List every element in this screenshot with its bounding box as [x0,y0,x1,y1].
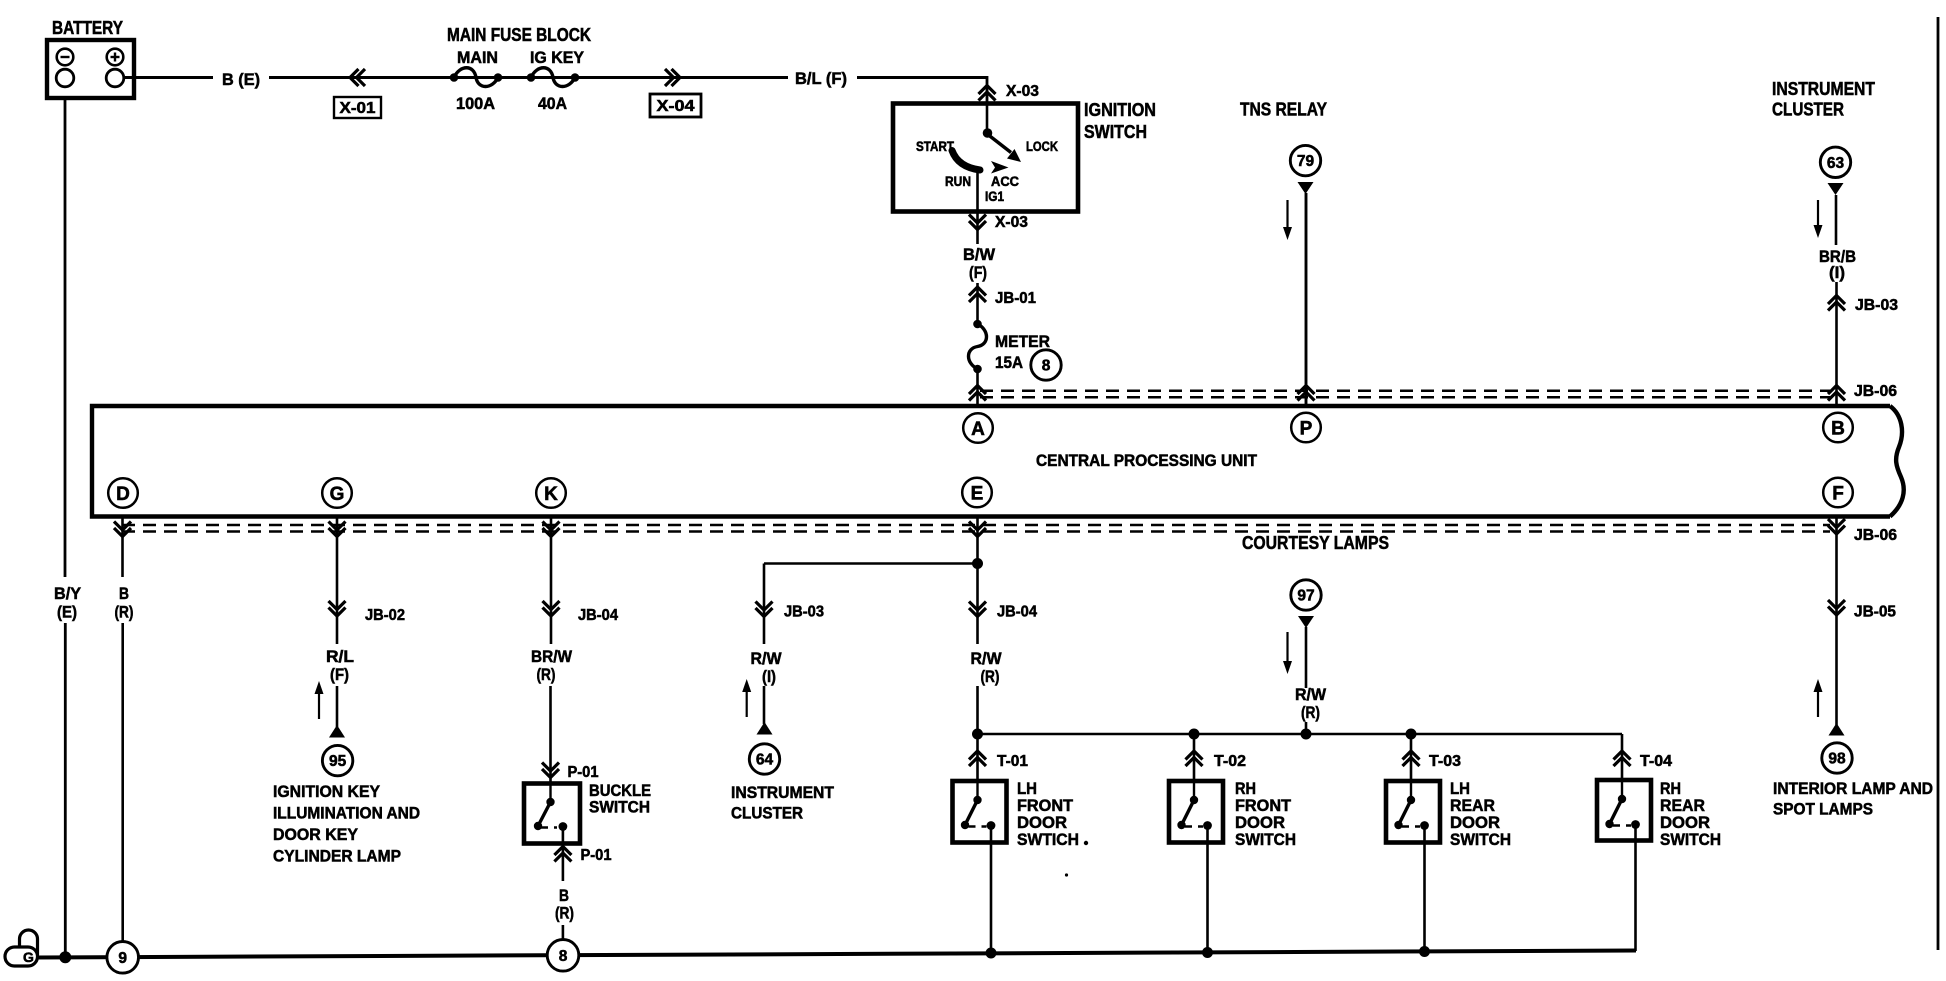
fuse number circle 8 [1031,350,1061,380]
connector X-01 [334,69,381,118]
svg-text:METER: METER [995,332,1050,351]
node T-02 junction [1189,729,1200,740]
triangle connector 79 [1298,182,1314,194]
svg-text:ILLUMINATION AND: ILLUMINATION AND [273,804,420,823]
junction block JB-06 dashed bus above CPU [980,391,1830,398]
circle 97 [1291,580,1321,610]
svg-text:CLUSTER: CLUSTER [731,804,803,823]
flow arrow up (64) [746,688,748,717]
svg-text:IG1: IG1 [985,189,1004,204]
wire fuse to CPU A with JB-06 chevron [969,369,986,406]
triangle connector 98 [1829,723,1845,736]
buckle switch box [524,784,580,844]
wire buckle to circle 8 [562,925,565,943]
svg-text:(R): (R) [981,667,1000,686]
svg-text:8: 8 [559,948,568,965]
svg-text:X-01: X-01 [340,100,376,117]
connector JB-05 [1828,600,1896,621]
svg-text:D: D [116,484,130,505]
svg-text:TNS RELAY: TNS RELAY [1240,99,1328,120]
connector X-03 top [979,83,1040,101]
node T-03 ground [1419,946,1430,957]
svg-text:IGNITION KEY: IGNITION KEY [273,782,381,801]
svg-text:DOOR KEY: DOOR KEY [273,825,359,844]
LH rear door switch [1386,781,1440,843]
svg-text:LOCK: LOCK [1026,139,1058,154]
node door branch [972,729,983,740]
svg-text:(F): (F) [330,665,349,684]
node 97 junction [1301,729,1312,740]
wire CPU F down [1828,516,1845,725]
wire battery negative B/Y (E) [64,96,67,958]
node T-03 junction [1406,729,1417,740]
svg-text:JB-01: JB-01 [995,290,1036,307]
label ignition key illumination [273,782,420,866]
circle 79 [1290,145,1320,175]
wire to buckle switch [549,686,552,783]
connector T-02 [1186,734,1247,781]
main fuse block labels [447,25,591,67]
svg-text:B: B [559,886,569,905]
flow arrow up (98) [1817,688,1819,717]
circle 63 [1820,147,1850,177]
connector P-01 top [542,763,599,782]
svg-text:CENTRAL PROCESSING UNIT: CENTRAL PROCESSING UNIT [1036,452,1257,470]
LH front door switch label [1017,779,1088,877]
connector JB-04 (E) [969,602,1037,621]
svg-text:(E): (E) [57,603,77,622]
connector P-01 bottom [554,844,611,882]
svg-text:(R): (R) [115,603,134,622]
connector X-03 bottom [969,212,1028,245]
triangle connector 63 [1828,183,1844,195]
svg-text:JB-04: JB-04 [578,607,618,624]
central processing unit box [92,406,1904,517]
wire CPU K down [543,516,560,644]
connector T-04 [1614,751,1673,780]
svg-text:BR/W: BR/W [531,647,573,666]
svg-text:ACC: ACC [991,174,1019,189]
svg-text:B: B [1831,418,1845,439]
wire 79 to CPU P with JB-06 chevron [1298,193,1315,406]
fuse METER 15A [969,320,1051,374]
CPU terminal E [962,478,992,508]
wire CPU D to ground circle 9, B (R) [114,516,131,943]
wire 63 down to CPU B [1835,195,1838,406]
svg-text:R/W: R/W [751,649,783,668]
svg-text:B/L (F): B/L (F) [795,69,847,88]
ignition switch internals [916,104,1058,212]
svg-text:IG KEY: IG KEY [530,48,585,67]
RH rear door switch label [1660,779,1721,849]
svg-text:MAIN: MAIN [457,48,498,67]
svg-text:X-03: X-03 [1006,83,1039,100]
flow arrow down (cluster) [1817,200,1819,229]
svg-text:SPOT LAMPS: SPOT LAMPS [1773,800,1873,819]
svg-text:(I): (I) [1829,263,1845,282]
LH rear door switch label [1450,779,1511,849]
svg-text:B/W: B/W [963,245,996,264]
svg-text:CYLINDER LAMP: CYLINDER LAMP [273,847,401,866]
svg-text:T-02: T-02 [1214,753,1246,770]
CPU terminal G [322,478,352,508]
svg-text:B/Y: B/Y [54,584,82,603]
ground circle 8 [547,940,579,972]
ground bus wire [36,951,1636,958]
connector T-03 [1403,734,1462,781]
svg-text:(R): (R) [537,665,556,684]
svg-text:IGNITION: IGNITION [1084,99,1156,120]
svg-text:X-04: X-04 [657,98,695,115]
svg-text:79: 79 [1297,153,1315,170]
circle 64 [749,744,779,774]
svg-text:100A: 100A [456,94,495,113]
connector T-01 [969,751,1028,781]
connector JB-04 (K) [543,601,619,624]
svg-text:G: G [330,484,345,505]
svg-text:P: P [1300,418,1313,439]
battery [47,40,134,98]
wire T-04 to ground bus [1634,841,1637,952]
svg-text:T-01: T-01 [997,753,1028,770]
label R/L (F) [326,647,354,684]
label R/W (R) 97 [1295,685,1327,722]
triangle connector 97 [1298,616,1314,628]
ignition switch label [1084,99,1156,142]
label R/W (R) [971,649,1003,686]
node T-02 ground [1202,947,1213,958]
wire branch to 64 [764,564,978,645]
node battery ground [59,951,71,963]
connector JB-03 right [1828,296,1898,315]
svg-text:JB-03: JB-03 [784,604,824,621]
junction block JB-06 dashed bus below CPU [122,525,1830,532]
svg-text:95: 95 [329,753,347,770]
CPU terminal D [108,478,138,508]
buckle switch label [589,781,651,817]
CPU terminal K [536,478,566,508]
svg-text:SWITCH: SWITCH [589,798,650,817]
svg-text:F: F [1832,483,1844,504]
svg-text:SWITCH: SWITCH [1450,830,1511,849]
svg-text:MAIN FUSE BLOCK: MAIN FUSE BLOCK [447,25,591,45]
LH front door switch [953,781,1007,843]
svg-text:R/W: R/W [971,649,1003,668]
circle 95 [322,745,352,775]
svg-text:JB-02: JB-02 [365,607,405,624]
connector JB-03 (64) [756,602,825,621]
instrument cluster label (top) [1772,78,1876,120]
svg-text:RUN: RUN [945,174,971,189]
svg-text:B: B [119,584,129,603]
svg-text:9: 9 [118,950,127,967]
RH front door switch [1169,781,1223,843]
svg-text:T-04: T-04 [1640,753,1672,770]
svg-text:G: G [23,949,34,965]
wire door branch horizontal [978,734,1623,752]
svg-text:JB-05: JB-05 [1854,604,1896,621]
label B (R) [115,584,134,622]
connector X-04 [650,69,701,117]
flow arrow down (97) [1286,632,1288,665]
label R/W (I) [751,649,783,686]
svg-text:JB-06: JB-06 [1854,527,1897,544]
label BR/B (I) [1819,247,1856,282]
svg-text:R/L: R/L [326,647,354,666]
svg-text:SWITCH: SWITCH [1235,830,1296,849]
wire 97 to door branch [1305,627,1308,734]
wire to triangle 64 [763,686,766,724]
flow arrow down (TNS) [1286,200,1288,231]
svg-text:8: 8 [1042,358,1051,375]
svg-text:(R): (R) [1301,703,1320,722]
svg-text:JB-06: JB-06 [1854,383,1897,400]
svg-text:P-01: P-01 [568,764,599,781]
triangle connector 95 [329,725,345,738]
svg-text:(I): (I) [762,667,776,686]
svg-text:15A: 15A [995,353,1023,372]
svg-text:COURTESY LAMPS: COURTESY LAMPS [1242,532,1389,553]
fuse IG KEY 40A [527,68,580,113]
wire to triangle 95 [336,686,339,727]
connector JB-01 [969,283,1036,324]
svg-text:JB-03: JB-03 [1855,297,1898,314]
CPU terminal A [963,413,993,443]
fuse MAIN 100A [450,68,503,113]
wire T-02 to ground bus [1206,843,1209,953]
buckle switch internals [534,784,568,844]
connector JB-06 at B [1828,383,1897,401]
CPU terminal B [1823,413,1853,443]
svg-text:(R): (R) [555,904,574,923]
node T-01 ground [986,948,997,959]
svg-text:40A: 40A [538,94,567,113]
flow arrow up (95) [318,690,320,719]
circle 98 [1822,743,1852,773]
wire E to door branch [976,686,979,752]
svg-text:JB-04: JB-04 [997,604,1037,621]
svg-text:X-03: X-03 [995,214,1028,231]
svg-text:T-03: T-03 [1429,753,1461,770]
wire T-01 to ground bus [990,843,993,954]
RH front door switch label [1235,779,1296,849]
label B/W (F) [963,245,996,282]
wire CPU G down [329,516,346,644]
svg-text:BATTERY: BATTERY [52,17,124,38]
svg-text:97: 97 [1297,588,1314,605]
connector JB-02 [329,601,406,624]
svg-text:INSTRUMENT: INSTRUMENT [1772,78,1876,99]
svg-text:SWITCH: SWITCH [1084,121,1147,142]
svg-text:R/W: R/W [1295,685,1327,704]
node E branch to instrument cluster [972,558,983,569]
wire CPU E down [969,516,986,644]
svg-text:P-01: P-01 [581,847,612,864]
svg-text:E: E [971,483,984,504]
svg-text:SWITCH: SWITCH [1660,830,1721,849]
svg-text:B (E): B (E) [222,70,260,89]
svg-text:INSTRUMENT: INSTRUMENT [731,783,835,802]
wire T-03 to ground bus [1423,843,1426,952]
ground symbol G [5,930,38,966]
svg-text:SWTICH: SWTICH [1017,830,1079,849]
svg-text:98: 98 [1828,751,1846,768]
svg-text:CLUSTER: CLUSTER [1772,99,1844,120]
svg-text:63: 63 [1827,155,1845,172]
CPU terminal P [1291,413,1321,443]
svg-text:(F): (F) [969,263,987,282]
label B/Y (E) [54,584,82,622]
svg-text:A: A [971,419,985,440]
svg-text:K: K [544,484,558,505]
instrument cluster label (bottom) [731,783,835,823]
label B (R) buckle [555,886,574,923]
label BR/W (R) [531,647,573,684]
interior lamp label [1773,779,1933,819]
wire drop to ignition switch [986,76,989,103]
wire battery B(E) to ignition switch [124,76,788,79]
svg-text:START: START [916,139,955,154]
ground circle 9 [107,942,139,974]
svg-text:64: 64 [756,752,774,769]
RH rear door switch [1597,780,1651,841]
page border right [1937,17,1940,950]
svg-text:INTERIOR LAMP AND: INTERIOR LAMP AND [1773,779,1933,798]
triangle connector 64 [757,722,773,735]
ignition switch U: box [893,104,1078,212]
CPU terminal F [1823,478,1853,508]
